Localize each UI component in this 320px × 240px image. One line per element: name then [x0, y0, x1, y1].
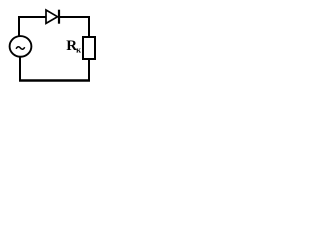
svg-text:Rк: Rк: [66, 38, 81, 55]
